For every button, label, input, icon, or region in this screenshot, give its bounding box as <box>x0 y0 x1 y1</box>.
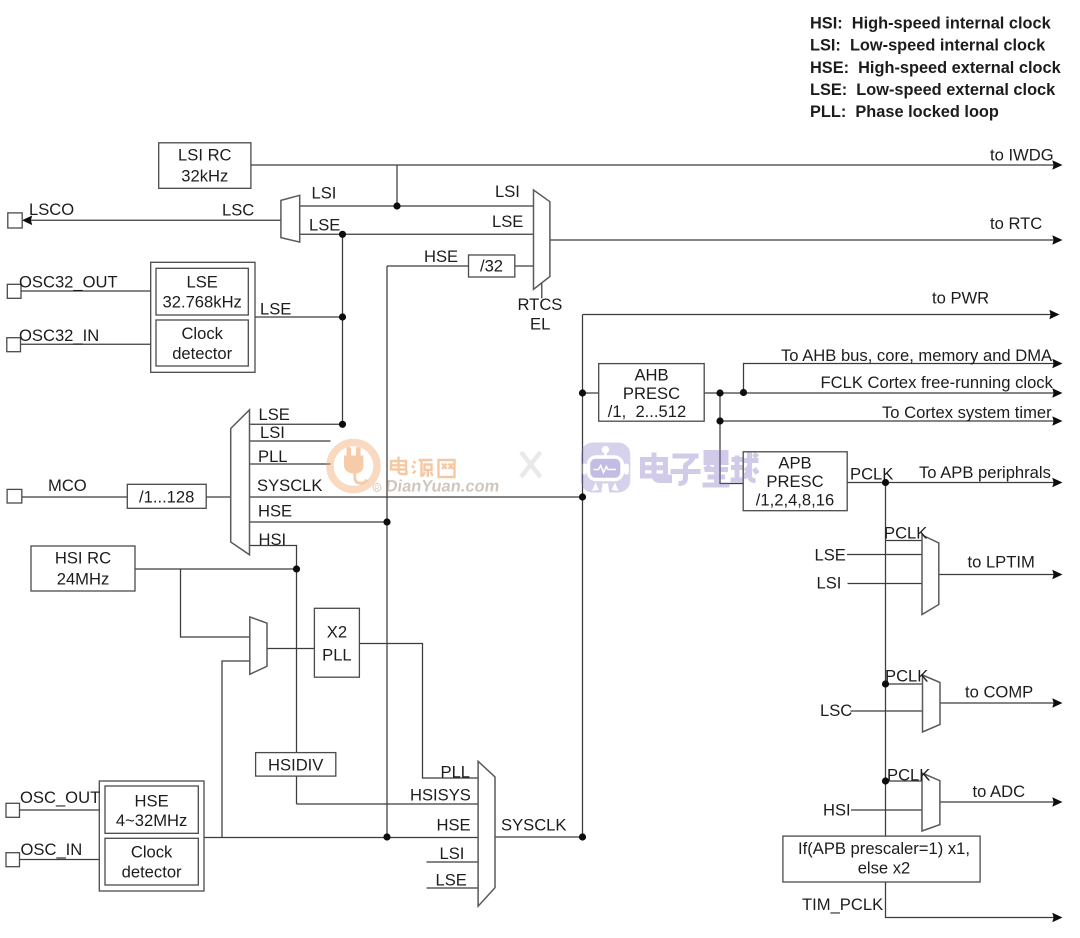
svg-text:LSE: LSE <box>260 300 291 319</box>
arrow to IWDG <box>1052 160 1062 170</box>
wire LSC to LSCO <box>30 219 281 221</box>
svg-text:PCLK: PCLK <box>884 524 927 543</box>
wire LPTIM LSI input <box>848 583 923 585</box>
box HSI RC 24MHz <box>31 546 135 591</box>
box X2 PLL <box>314 608 359 677</box>
mux SYSCLK select <box>478 761 495 906</box>
svg-text:to LPTIM: to LPTIM <box>968 553 1035 572</box>
wire HSE oscillator output <box>204 837 478 839</box>
wire PLL mux HSE branch <box>222 661 250 838</box>
wire MCO mux LSI stub <box>250 440 331 442</box>
node HSI RC junction <box>293 565 300 572</box>
mux RTCSEL <box>534 190 550 289</box>
svg-text:PLL: Phase locked loop: PLL: Phase locked loop <box>810 103 999 121</box>
wire COMP output <box>940 702 1054 704</box>
watermark Star robot logo group <box>581 443 759 493</box>
wire FCLK row <box>704 392 1054 394</box>
svg-text:/1...128: /1...128 <box>139 488 194 507</box>
svg-text:/1,2,4,8,16: /1,2,4,8,16 <box>756 491 834 510</box>
svg-text:32kHz: 32kHz <box>181 167 228 186</box>
wire MCO lead <box>22 496 128 498</box>
svg-text:LSE: LSE <box>492 212 523 231</box>
svg-text:to RTC: to RTC <box>990 214 1042 233</box>
wire LPTIM PCLK stub <box>886 540 923 542</box>
svg-text:R: R <box>374 486 379 493</box>
node HSE to MCO junction <box>383 518 390 525</box>
svg-text:else x2: else x2 <box>858 859 911 878</box>
box Clock detector LSE <box>156 320 248 366</box>
svg-text:AHB: AHB <box>634 366 668 385</box>
svg-text:SYSCLK: SYSCLK <box>501 816 566 835</box>
wire COMP LSC input <box>851 710 923 712</box>
watermark DianYuan plug <box>344 447 369 485</box>
wire /32 to RTCSEL <box>515 265 534 267</box>
wire LSE row to RTCSEL <box>300 233 534 235</box>
box Clock detector HSE <box>105 838 198 885</box>
svg-text:LSE: LSE <box>309 216 340 235</box>
svg-text:24MHz: 24MHz <box>57 570 110 589</box>
box LSE 32.768kHz <box>156 268 248 315</box>
wire LSI to IWDG <box>251 164 1054 166</box>
node PCLK junction <box>882 479 889 486</box>
svg-text:/32: /32 <box>480 257 503 276</box>
svg-text:LSI RC: LSI RC <box>178 146 232 165</box>
svg-text:detector: detector <box>122 863 182 882</box>
svg-text:LSCO: LSCO <box>29 200 74 219</box>
svg-text:PRESC: PRESC <box>623 384 680 403</box>
svg-text:LSE: LSE <box>187 273 218 292</box>
wire SYSCLK mux output <box>495 836 583 838</box>
svg-text:/1, 2...512: /1, 2...512 <box>608 402 686 421</box>
wire MCO divider to mux <box>206 496 231 498</box>
svg-text:HSI: HSI <box>823 801 851 820</box>
wire SYSCLK mux LSE stub <box>427 887 479 889</box>
watermark text DianYuan Chinese <box>391 457 455 478</box>
wire Cortex timer row <box>720 420 1054 422</box>
mux LPTIM clock select <box>922 535 939 615</box>
svg-text:SYSCLK: SYSCLK <box>257 476 322 495</box>
wire PLL mux output <box>267 648 315 650</box>
arrow to APB peripherals <box>1052 478 1062 488</box>
node HCLK branch 2 <box>740 389 747 396</box>
node LSI branch junction <box>393 202 400 209</box>
wire LPTIM output <box>939 574 1054 576</box>
node SYSCLK bottom junction <box>579 833 586 840</box>
svg-text:OSC_IN: OSC_IN <box>21 840 83 859</box>
arrow to ADC <box>1052 797 1062 807</box>
node Cortex timer branch <box>716 417 723 424</box>
node LSE oscillator junction <box>339 313 346 320</box>
arrow LSCO <box>22 216 32 226</box>
wire LSI row to RTCSEL <box>300 205 534 207</box>
svg-text:PLL: PLL <box>322 646 352 665</box>
svg-text:HSE: HSE <box>437 816 471 835</box>
node PCLK ADC junction <box>882 777 889 784</box>
svg-text:TIM_PCLK: TIM_PCLK <box>802 895 883 914</box>
wire MCO mux HSE input <box>250 521 388 523</box>
watermark registered mark <box>373 484 381 492</box>
wire LSE oscillator output <box>255 316 343 318</box>
wire HSE vertical <box>386 266 388 837</box>
box APB PRESC <box>743 452 847 511</box>
box LSI RC 32kHz <box>159 143 251 189</box>
svg-text:OSC_OUT: OSC_OUT <box>20 788 100 807</box>
port OSC_IN <box>6 853 20 867</box>
node LSE row junction <box>339 231 346 238</box>
wire OSC32_IN lead <box>20 343 151 345</box>
node SYSCLK MCO junction <box>579 493 586 500</box>
svg-text:PCLK: PCLK <box>885 667 928 686</box>
wire HSISYS row <box>297 803 479 805</box>
svg-text:to PWR: to PWR <box>932 289 989 308</box>
wire HSI RC output <box>135 568 297 570</box>
svg-text:4~32MHz: 4~32MHz <box>116 811 187 830</box>
svg-text:To APB periphrals: To APB periphrals <box>919 463 1051 482</box>
wire LSE vertical <box>342 234 344 424</box>
wire MCO mux HSI input <box>250 546 297 570</box>
mux LSC output select <box>281 195 300 242</box>
svg-text:MCO: MCO <box>48 476 87 495</box>
mux ADC clock select <box>922 773 940 831</box>
svg-text:Clock: Clock <box>131 843 173 862</box>
arrow TIM_PCLK <box>1052 913 1062 923</box>
mux COMP clock select <box>923 675 941 732</box>
svg-text:LSI: Low-speed internal clock: LSI: Low-speed internal clock <box>810 37 1046 55</box>
svg-text:To AHB bus, core, memory and D: To AHB bus, core, memory and DMA <box>781 346 1053 365</box>
svg-text:HSISYS: HSISYS <box>410 786 471 805</box>
svg-text:LSE: LSE <box>815 546 846 565</box>
svg-text:to ADC: to ADC <box>973 782 1026 801</box>
wire PCLK vertical <box>885 483 887 837</box>
port OSC32_IN <box>7 338 21 352</box>
wire LSI branch down to LSI row <box>396 165 398 206</box>
svg-text:LSI: LSI <box>495 182 520 201</box>
mux PLL source select <box>250 617 267 674</box>
wire MCO mux LSE input <box>250 423 343 425</box>
svg-text:32.768kHz: 32.768kHz <box>163 293 242 312</box>
node SYSCLK AHB junction <box>579 389 586 396</box>
svg-text:FCLK Cortex free-running clock: FCLK Cortex free-running clock <box>821 373 1054 392</box>
wire AHB to APB vertical <box>720 393 743 484</box>
box If APB prescaler <box>783 836 980 882</box>
svg-text:EL: EL <box>530 315 550 334</box>
wire PLL mux HSI branch <box>181 569 251 637</box>
node PCLK COMP junction <box>882 680 889 687</box>
wire SYSCLK mux LSI stub <box>427 861 479 863</box>
wire OSC_IN lead <box>20 859 100 861</box>
node HCLK branch 1 <box>716 389 723 396</box>
svg-text:LSC: LSC <box>222 201 254 220</box>
svg-text:HSIDIV: HSIDIV <box>268 755 323 774</box>
watermark text DianZiXingQiu <box>643 452 759 485</box>
svg-text:LSE: LSE <box>436 871 467 890</box>
box HSIDIV <box>256 753 336 777</box>
svg-text:HSE: High-speed external cloc: HSE: High-speed external clock <box>810 59 1062 77</box>
svg-text:to COMP: to COMP <box>965 683 1033 702</box>
wire to PWR <box>583 314 1052 316</box>
box HSE oscillator outer <box>99 781 204 891</box>
box HSE 4~32MHz <box>105 786 198 833</box>
svg-text:HSE: HSE <box>258 502 292 521</box>
wire MCO mux SYSCLK input <box>250 496 583 498</box>
watermark DianYuan logo group <box>330 443 501 496</box>
node LSE to MCO junction <box>339 421 346 428</box>
svg-text:DianYuan.com: DianYuan.com <box>384 477 500 496</box>
wire LPTIM LSE input <box>847 554 922 556</box>
wire PCLK output row <box>847 482 1054 484</box>
wire COMP PCLK stub <box>886 683 923 685</box>
svg-text:If(APB prescaler=1) x1,: If(APB prescaler=1) x1, <box>798 839 970 858</box>
wire AHB PRESC input <box>583 392 600 394</box>
wire RTCSEL output to RTC <box>550 239 1054 241</box>
svg-text:LSI: LSI <box>440 844 465 863</box>
svg-text:LSE: Low-speed external clock: LSE: Low-speed external clock <box>810 81 1056 99</box>
mux MCO select <box>231 410 250 555</box>
svg-text:OSC32_OUT: OSC32_OUT <box>19 273 118 292</box>
svg-text:LSE: LSE <box>259 405 290 424</box>
wire X2 PLL output to SYSCLK mux <box>360 644 479 779</box>
wire HSI vertical through HSIDIV <box>296 569 298 804</box>
svg-text:HSI: HSI <box>259 530 287 549</box>
svg-text:PRESC: PRESC <box>766 472 823 491</box>
svg-text:APB: APB <box>778 454 811 473</box>
arrow to LPTIM <box>1052 570 1062 580</box>
arrow to Cortex system timer <box>1052 416 1062 426</box>
svg-text:Clock: Clock <box>181 324 223 343</box>
wire OSC32_OUT lead <box>21 290 151 292</box>
port OSC_OUT <box>6 803 20 817</box>
svg-text:LSI: LSI <box>312 184 337 203</box>
port LSCO <box>8 213 22 228</box>
svg-text:to IWDG: to IWDG <box>990 146 1054 165</box>
svg-text:OSC32_IN: OSC32_IN <box>19 326 99 345</box>
svg-text:PCLK: PCLK <box>887 766 930 785</box>
wire TIM_PCLK <box>886 882 1055 918</box>
svg-text:HSI RC: HSI RC <box>55 549 111 568</box>
watermark cross divider <box>521 452 541 477</box>
svg-text:PLL: PLL <box>258 447 288 466</box>
box LSE oscillator outer <box>151 262 255 372</box>
wire OSC_OUT lead <box>20 809 100 811</box>
arrow FCLK <box>1052 388 1062 398</box>
box /32 divider <box>469 255 515 277</box>
svg-text:LSC: LSC <box>820 701 852 720</box>
svg-text:LSI: LSI <box>260 423 285 442</box>
wire SYSCLK vertical <box>582 315 584 838</box>
svg-text:PLL: PLL <box>441 763 471 782</box>
box /1...128 divider <box>127 484 206 508</box>
svg-text:RTCS: RTCS <box>518 295 563 314</box>
watermark DianYuan ring <box>330 443 377 490</box>
wire ADC HSI input <box>851 809 922 811</box>
port MCO <box>7 489 22 503</box>
svg-text:HSE: HSE <box>135 792 169 811</box>
svg-text:PCLK: PCLK <box>850 465 893 484</box>
svg-text:To Cortex system timer: To Cortex system timer <box>882 403 1052 422</box>
arrow to COMP <box>1052 698 1062 708</box>
wire ADC PCLK stub <box>886 780 923 782</box>
node HSE bottom junction <box>383 833 390 840</box>
box AHB PRESC <box>599 364 705 422</box>
svg-text:X2: X2 <box>327 623 347 642</box>
wire MCO mux PLL stub <box>250 463 331 465</box>
wire ADC output <box>940 801 1054 803</box>
wire AHB bus row <box>744 364 1055 394</box>
arrow to AHB bus <box>1052 359 1062 369</box>
svg-text:LSI: LSI <box>817 574 842 593</box>
arrow to RTC <box>1052 235 1062 245</box>
svg-text:detector: detector <box>172 344 232 363</box>
wire HSE to /32 <box>387 265 469 267</box>
arrow to PWR <box>1049 310 1059 320</box>
svg-text:HSE: HSE <box>424 247 458 266</box>
svg-text:HSI: High-speed internal cloc: HSI: High-speed internal clock <box>810 15 1052 33</box>
port OSC32_OUT <box>7 284 21 298</box>
wire RTCSEL label tail <box>541 284 543 299</box>
